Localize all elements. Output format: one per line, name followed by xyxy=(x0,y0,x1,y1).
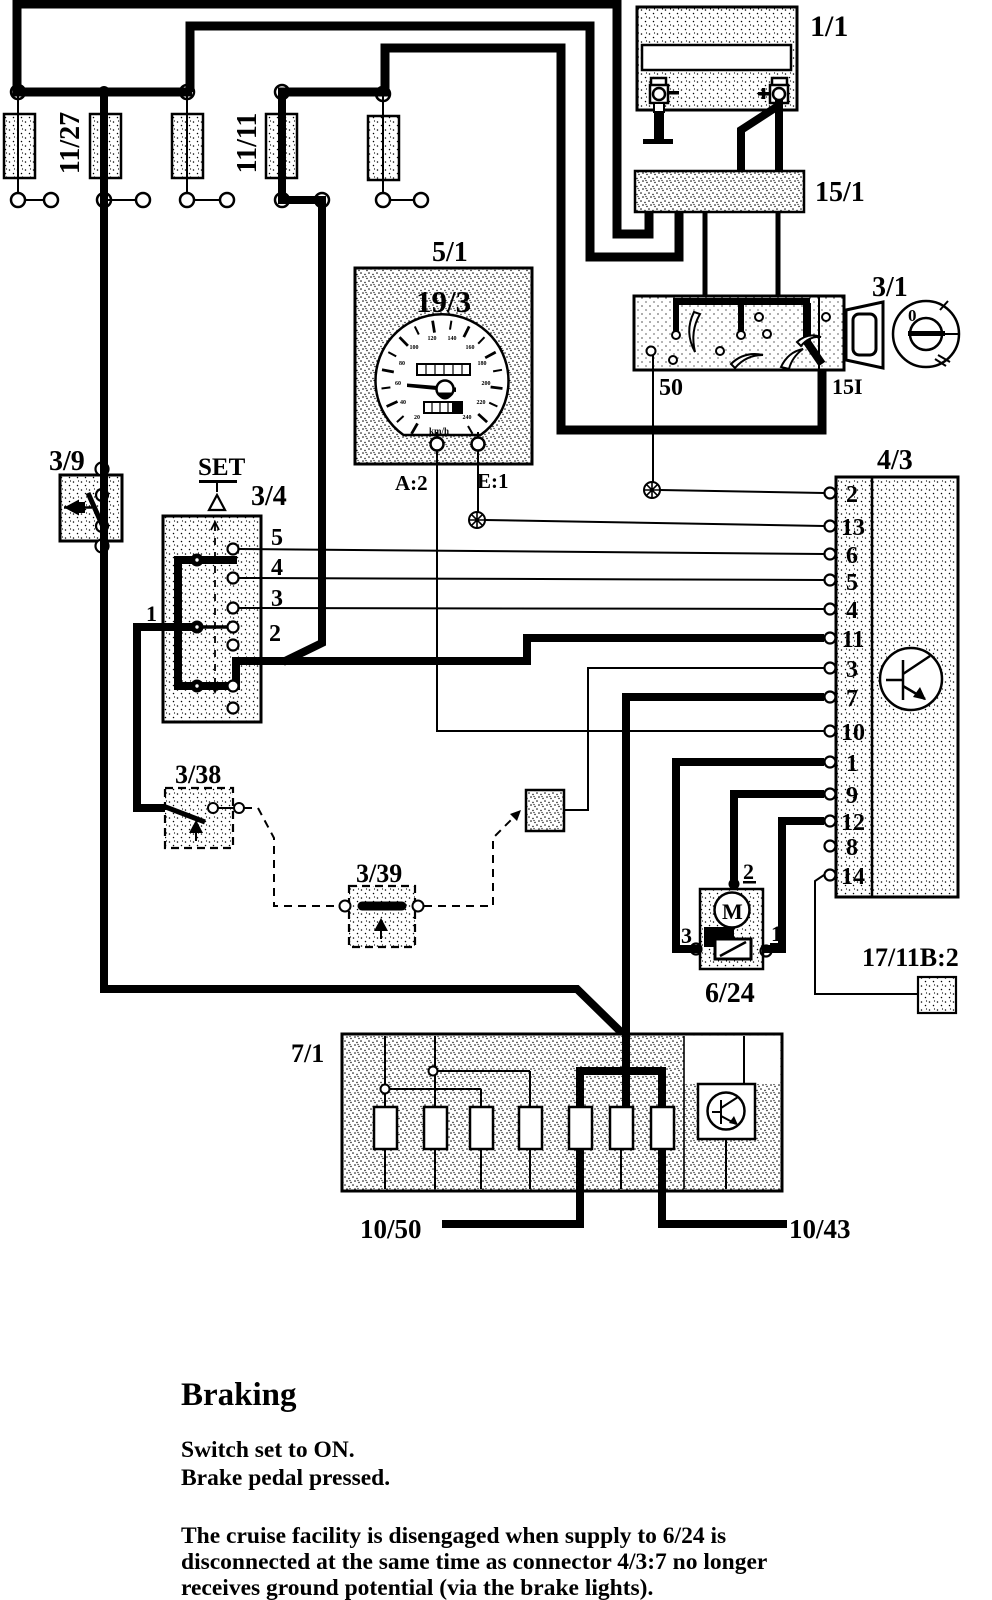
3/4 pin 2 xyxy=(228,622,239,633)
node 3/4 junction top xyxy=(191,554,204,567)
fuse F2 11/27 xyxy=(90,96,121,196)
svg-text:receives ground potential (via: receives ground potential (via the brake… xyxy=(181,1575,653,1600)
4/3 pin circles xyxy=(825,488,836,881)
node fuse F4 side xyxy=(315,193,329,207)
ignition key connector xyxy=(846,302,883,368)
node connector on 50 wire xyxy=(644,482,660,498)
svg-text:disconnected at the same time: disconnected at the same time as connect… xyxy=(181,1549,767,1575)
svg-text:1/1: 1/1 xyxy=(810,10,848,43)
7/1 bulb stub wires xyxy=(385,1036,621,1189)
gauge needle xyxy=(407,381,456,400)
svg-text:11/27: 11/27 xyxy=(55,112,86,174)
svg-text:SET: SET xyxy=(198,454,246,481)
wire bus3 third feed from ignition 15I xyxy=(385,48,822,430)
wire 3/4 internal bus bottom xyxy=(174,682,233,690)
svg-text:3/9: 3/9 xyxy=(49,446,85,477)
wire bus1 top feed xyxy=(17,4,649,234)
label 3 motor terminal xyxy=(680,923,693,948)
svg-text:17/11B:2: 17/11B:2 xyxy=(862,943,959,972)
svg-text:3/4: 3/4 xyxy=(251,481,287,512)
svg-text:240: 240 xyxy=(463,415,472,421)
node fuse F2 side xyxy=(136,193,150,207)
speedometer 19/3 gauge face xyxy=(376,314,509,435)
gauge tick marks xyxy=(382,321,503,434)
wire dashed 3/39 to connector xyxy=(424,817,514,906)
svg-text:km/h: km/h xyxy=(429,426,449,436)
switch 3/9 xyxy=(60,460,122,556)
svg-text:160: 160 xyxy=(466,345,475,351)
svg-text:2: 2 xyxy=(269,621,281,647)
SET actuator arrow xyxy=(209,483,225,510)
wire 3/4 internal bus top xyxy=(178,556,237,564)
ground xyxy=(643,139,673,144)
svg-text:180: 180 xyxy=(478,361,487,367)
gauge dial numerals xyxy=(395,336,491,421)
battery 1/1 xyxy=(637,7,797,110)
fuse holder 15/1 xyxy=(635,171,804,212)
node fuse F1 side xyxy=(44,193,58,207)
4/3 pin number labels xyxy=(841,482,865,890)
wire 3/4 pin4 to 4/3 pin5 xyxy=(238,578,824,580)
wire 4/3 pin12 to motor pin1 xyxy=(754,821,824,949)
svg-text:20: 20 xyxy=(414,415,420,421)
wire fuse row bus B xyxy=(278,88,389,97)
label 1 motor terminal xyxy=(770,921,783,946)
wire fuse F2 bottom link xyxy=(104,199,143,201)
fuse F5 xyxy=(368,116,399,180)
svg-text:1: 1 xyxy=(146,601,157,626)
svg-text:3/39: 3/39 xyxy=(356,859,402,888)
svg-text:6/24: 6/24 xyxy=(705,978,755,1009)
wire battery minus to ground xyxy=(654,112,664,139)
node fuse F2 top junction xyxy=(98,86,110,98)
node fuse F4 bottom xyxy=(275,193,289,207)
svg-text:9: 9 xyxy=(846,783,858,809)
gauge trip odometer xyxy=(424,402,462,413)
speedometer terminal A xyxy=(431,438,444,451)
3/4 pin feed xyxy=(228,681,239,692)
svg-text:200: 200 xyxy=(482,381,491,387)
transistor symbol in 4/3 xyxy=(880,648,942,710)
svg-text:3/38: 3/38 xyxy=(175,760,221,789)
node motor feed junction xyxy=(729,879,740,890)
wire through fuse F3 xyxy=(186,92,188,200)
svg-text:4/3: 4/3 xyxy=(877,445,913,476)
wire node to 4/3 pin13 xyxy=(485,520,824,526)
wire 3/4 output to 4/3 pin11 xyxy=(236,638,824,690)
svg-text:0: 0 xyxy=(908,306,917,325)
wire 1 feed into 3/4 xyxy=(133,623,200,631)
svg-text:11: 11 xyxy=(842,627,865,653)
wire bus2 second feed xyxy=(190,26,679,257)
7/1 bulbs xyxy=(374,1107,674,1149)
battery minus terminal xyxy=(650,78,668,112)
svg-text:5: 5 xyxy=(846,570,858,596)
wire speedometer E:1 down xyxy=(477,450,479,512)
wire through fuse F4 to 3/4 and 4/3 pin11 xyxy=(282,92,322,662)
svg-text:14: 14 xyxy=(841,864,865,890)
svg-text:1: 1 xyxy=(846,751,858,777)
label minus xyxy=(669,91,679,95)
3/4 pin 5 xyxy=(228,544,239,555)
node fuse F1 bottom xyxy=(11,193,25,207)
ignition switch 3/1 xyxy=(634,296,844,370)
wire 15/1 to ignition feed a xyxy=(703,212,708,300)
wire 15/1 to ignition feed b xyxy=(776,212,781,300)
gauge odometer xyxy=(417,364,470,375)
svg-text:1: 1 xyxy=(771,921,782,946)
node motor pin 3 xyxy=(691,944,702,955)
connector 17/11B:2 xyxy=(918,977,956,1013)
svg-text:100: 100 xyxy=(410,345,419,351)
label plus xyxy=(758,88,769,99)
node fuse F4 top xyxy=(275,85,289,99)
fuse F3 xyxy=(172,114,203,178)
wire 4/3 pin14 to 17/11B:2 xyxy=(815,875,918,994)
node fuse F5 bottom xyxy=(376,193,390,207)
wire 4/3 pin7 to 7/1 xyxy=(626,697,824,1040)
node fuse F3 top xyxy=(180,85,194,99)
node 3/4 junction bottom xyxy=(191,680,204,693)
node fuse F5 side xyxy=(414,193,428,207)
node 7/1 sense a xyxy=(381,1085,390,1094)
svg-text:3: 3 xyxy=(846,657,858,683)
svg-text:13: 13 xyxy=(841,515,865,541)
node fuse F2 bottom xyxy=(97,193,111,207)
svg-text:Switch set to ON.: Switch set to ON. xyxy=(181,1437,355,1463)
wire 4/3 pin9 to motor top xyxy=(734,794,824,894)
ignition key symbol xyxy=(893,301,959,367)
svg-text:60: 60 xyxy=(395,381,401,387)
wire connector to 4/3 pin3 xyxy=(564,668,824,810)
wire terminal A stub xyxy=(436,432,438,440)
svg-text:220: 220 xyxy=(477,400,486,406)
svg-text:2: 2 xyxy=(846,482,858,508)
svg-text:10: 10 xyxy=(841,720,865,746)
wire fuse row bus A xyxy=(13,88,192,97)
svg-text:15I: 15I xyxy=(832,374,863,399)
wire battery plus diagonal to 15/1 xyxy=(741,106,778,172)
svg-text:80: 80 xyxy=(399,361,405,367)
cruise control switch 3/4 box xyxy=(163,516,261,722)
wire fuse F1 bottom link xyxy=(18,199,51,201)
svg-text:12: 12 xyxy=(841,810,865,836)
wire 7/1 to 10/43 xyxy=(662,1149,787,1224)
wire dashed 3/38 to 3/39 xyxy=(244,808,339,906)
wire fuse F3 bottom link xyxy=(187,199,227,201)
speedometer unit 5/1 box xyxy=(355,268,532,464)
svg-text:Braking: Braking xyxy=(181,1377,297,1413)
wire 3/4 pin3 to 4/3 pin4 xyxy=(238,608,824,609)
svg-text:A:2: A:2 xyxy=(395,471,428,495)
node fuse F3 side xyxy=(220,193,234,207)
wire terminal E stub xyxy=(477,432,479,440)
fuse F4 11/11 xyxy=(266,96,297,196)
svg-text:50: 50 xyxy=(659,375,683,401)
node fuse F1 top xyxy=(11,85,25,99)
wire main feed through fuse F2 down via 3/9 to 7/1 xyxy=(104,92,624,1035)
svg-text:40: 40 xyxy=(400,400,406,406)
svg-text:8: 8 xyxy=(846,835,858,861)
svg-text:3: 3 xyxy=(681,923,692,948)
node fuse F3 bottom xyxy=(180,193,194,207)
svg-text:5/1: 5/1 xyxy=(432,237,468,268)
wire fuse F5 bottom link xyxy=(383,199,421,201)
connector box brake circuit xyxy=(526,790,564,831)
svg-text:The cruise facility is disenga: The cruise facility is disengaged when s… xyxy=(181,1523,726,1549)
wire 1 feed to pin xyxy=(200,625,231,629)
node motor pin 1 xyxy=(761,946,772,957)
fuse F1 xyxy=(4,114,35,178)
wire ignition 50 to node xyxy=(652,355,654,483)
node 7/1 sense b xyxy=(429,1067,438,1076)
node 3/4 junction mid xyxy=(191,621,204,634)
svg-text:120: 120 xyxy=(428,336,437,342)
svg-text:140: 140 xyxy=(448,336,457,342)
battery plus terminal xyxy=(770,78,788,103)
3/4 pin 3 xyxy=(228,603,239,614)
wire speedometer A:2 to 4/3 pin10 xyxy=(437,450,824,731)
wire 4/3 pin1 to motor pin3 xyxy=(676,762,824,949)
node connector on E:1 wire xyxy=(469,512,485,528)
svg-text:Brake pedal pressed.: Brake pedal pressed. xyxy=(181,1465,390,1491)
svg-text:6: 6 xyxy=(846,543,858,569)
3/4 mechanical dashed link xyxy=(211,522,219,692)
wire battery plus to 15/1 xyxy=(775,100,783,172)
bulb failure sensor 7/1 box xyxy=(342,1034,782,1191)
3/4 pin extra b xyxy=(228,703,239,714)
brake switch 3/39 xyxy=(340,886,424,947)
motor unit 6/24 xyxy=(700,889,763,969)
wire node to 4/3 pin2 xyxy=(660,490,824,493)
brake switch 3/38 xyxy=(163,788,244,848)
svg-text:7/1: 7/1 xyxy=(291,1039,324,1068)
label 2 motor terminal xyxy=(743,859,756,884)
svg-text:3/1: 3/1 xyxy=(872,272,908,303)
svg-text:2: 2 xyxy=(743,859,754,884)
SET underline xyxy=(199,480,237,483)
3/4 pin extra a xyxy=(228,640,239,651)
speedometer terminal E xyxy=(472,438,485,451)
svg-text:E:1: E:1 xyxy=(477,469,509,493)
7/1 relay box with transistor xyxy=(698,1036,755,1189)
wire 7/1 to 10/50 xyxy=(442,1149,580,1224)
node fuse F5 top xyxy=(376,87,390,101)
wire through fuse F5 xyxy=(382,92,384,200)
control module 4/3 xyxy=(836,477,958,897)
svg-text:5: 5 xyxy=(271,525,283,551)
svg-text:7: 7 xyxy=(846,686,858,712)
wire 3/4 pin5 to 4/3 pin6 xyxy=(238,549,824,554)
svg-text:M: M xyxy=(722,899,743,924)
wire through fuse F1 xyxy=(17,92,19,200)
wire 3/4 feed down to 3/38 xyxy=(137,627,168,808)
3/4 pin 4 xyxy=(228,573,239,584)
svg-text:10/43: 10/43 xyxy=(789,1214,851,1244)
svg-text:11/11: 11/11 xyxy=(232,113,263,174)
svg-text:10/50: 10/50 xyxy=(360,1214,422,1244)
wire 3/4 internal bus vertical xyxy=(174,556,182,690)
arrow into connector xyxy=(510,810,521,821)
svg-text:4: 4 xyxy=(271,555,283,581)
svg-text:15/1: 15/1 xyxy=(815,177,865,208)
wire 7/1 brake feed T xyxy=(576,1035,666,1107)
svg-text:4: 4 xyxy=(846,598,858,624)
